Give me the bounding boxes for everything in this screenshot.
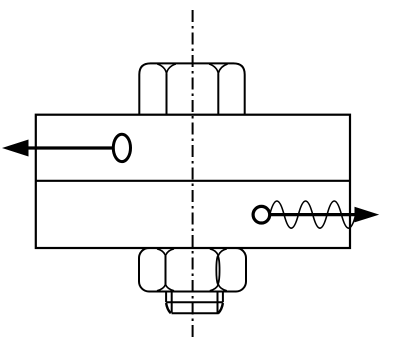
centerline (vertical dash-dot axis) <box>192 10 194 341</box>
left force application ellipse <box>113 134 130 161</box>
left force arrowhead <box>2 140 29 157</box>
bolt head right chamfer arcs <box>209 64 228 73</box>
bolt protruding end outer left edge <box>165 292 167 303</box>
bolt end thread line right <box>217 292 219 313</box>
bolt end left chamfer arc <box>166 303 171 313</box>
nut right chamfer arcs (top) <box>210 249 227 256</box>
left force arrow shaft <box>26 146 114 149</box>
bolt end right chamfer arc <box>218 303 223 313</box>
joint line between upper and lower plate <box>36 180 350 182</box>
bolt head left chamfer arcs <box>157 64 176 73</box>
nut left chamfer arcs (bottom) <box>157 284 174 291</box>
bolt end thread line left <box>171 292 173 313</box>
nut left chamfer arcs (top) <box>157 249 174 256</box>
nut right chamfer arcs (bottom) <box>210 284 227 291</box>
bolt head right facet line <box>217 73 219 114</box>
right force application circle <box>253 206 270 223</box>
bolt end bottom edge <box>172 312 219 314</box>
spring / wavy line on right force <box>270 201 356 228</box>
right force arrow shaft <box>270 213 357 216</box>
bolt head left facet line <box>166 73 168 114</box>
nut left facet line <box>165 256 167 284</box>
nut right facet line <box>216 256 219 285</box>
bolt end chamfer start line <box>166 301 223 303</box>
plate assembly outline (two clamped plates) <box>36 115 350 248</box>
bolt head silhouette (hex head, side view) <box>139 63 244 114</box>
bolt end outer right edge <box>222 292 224 303</box>
nut silhouette (hex nut, side view) <box>139 248 246 292</box>
right force arrowhead <box>355 207 380 223</box>
